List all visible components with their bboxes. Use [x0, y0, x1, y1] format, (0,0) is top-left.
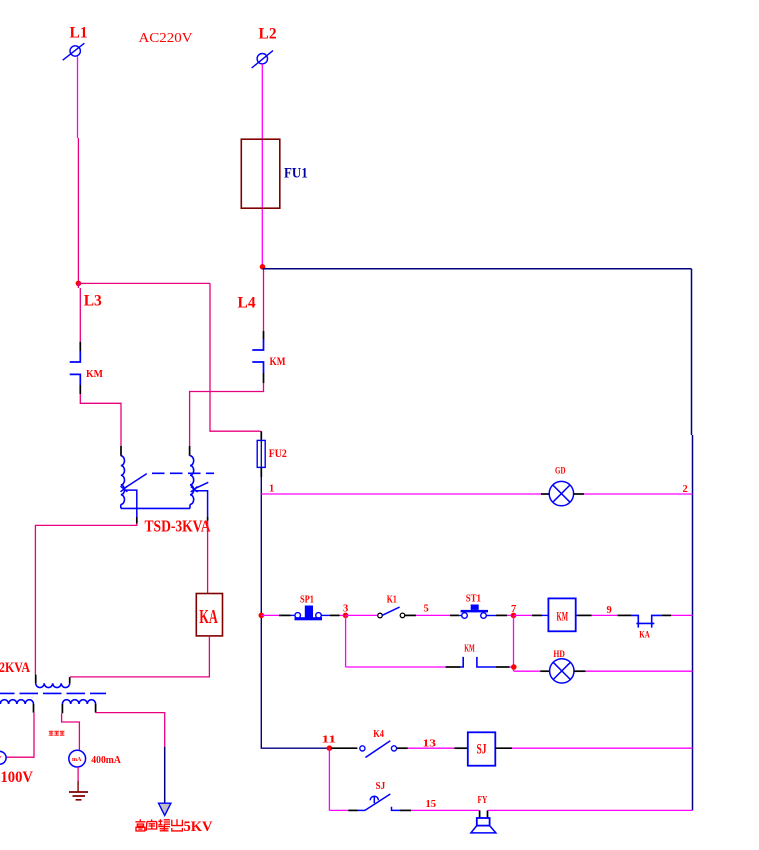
wire K1 to ST1 [416, 614, 450, 616]
variac wiper left [121, 474, 147, 517]
wire rung3 right [586, 670, 693, 672]
svg-text:TSD-3KVA: TSD-3KVA [145, 517, 212, 536]
wire HV output [96, 713, 165, 747]
pin KA contact left [618, 614, 632, 616]
wire L1 vertical upper [77, 57, 79, 139]
svg-text:KM: KM [557, 608, 569, 623]
svg-text:3: 3 [343, 603, 348, 614]
svg-text:KM: KM [86, 368, 104, 380]
pin GD left [541, 493, 549, 495]
wire mA meter to ground [77, 767, 79, 781]
wire left control bus [260, 477, 262, 748]
pin SJ coil left [454, 747, 468, 749]
svg-text:KM: KM [464, 644, 475, 655]
svg-text:100V: 100V [1, 769, 34, 786]
wire FY to bus [488, 809, 693, 811]
svg-text:2: 2 [683, 484, 688, 495]
svg-text:SJ: SJ [477, 742, 487, 758]
wire node7 down [513, 615, 515, 671]
svg-text:11: 11 [322, 735, 337, 746]
pin K4 left [331, 747, 357, 749]
right control bus [692, 269, 693, 811]
svg-text:AC220V: AC220V [139, 31, 193, 46]
svg-text:FY: FY [478, 795, 488, 806]
wire K4 to SJ coil [408, 747, 454, 749]
pin variac right top [189, 446, 191, 456]
wire rung3 left [346, 666, 446, 668]
wire SJ coil to bus [512, 747, 693, 749]
transformer T2 secondary HV winding [62, 700, 95, 704]
svg-text:KA: KA [199, 606, 218, 628]
svg-text:FU2: FU2 [269, 446, 287, 460]
node 7 [511, 613, 517, 619]
terminal L1 [63, 43, 85, 60]
svg-text:L4: L4 [238, 295, 256, 312]
svg-text:HD: HD [553, 649, 565, 659]
svg-text:400mA: 400mA [91, 755, 121, 766]
svg-text:L3: L3 [84, 293, 102, 310]
svg-text:K4: K4 [373, 729, 384, 740]
pushbutton ST1 [459, 613, 496, 619]
wire KM-left bottom to variac left winding [80, 394, 121, 446]
pin SJ contact right [400, 809, 411, 811]
wire node11 down to rung5 [328, 748, 330, 810]
svg-text:KA: KA [639, 631, 650, 641]
wire node3 down to KM aux [345, 615, 347, 667]
pin T2 primary right [69, 677, 71, 683]
transformer TSD variac right winding [190, 456, 194, 509]
svg-text:5: 5 [424, 603, 429, 614]
svg-text:1: 1 [269, 483, 274, 494]
wire node3 to K1 [346, 614, 378, 616]
node L3 junction [76, 281, 82, 287]
wire KM coil to node9 [592, 614, 618, 616]
wire right tap down to KA coil [207, 521, 209, 594]
buzzer FY [471, 810, 496, 833]
transformer T2 primary winding [36, 683, 70, 687]
pin KA contact right [662, 614, 671, 616]
pin SP1 right [330, 614, 340, 616]
pin variac right tap [207, 517, 209, 521]
pin LV winding right [33, 704, 35, 713]
wire SJ contact to FY [411, 809, 479, 811]
pin GD right [574, 493, 584, 495]
pin HD right [574, 670, 586, 672]
wire HV tail to mA meter [62, 713, 80, 750]
node rung3 junction [511, 664, 517, 670]
voltmeter V [0, 751, 6, 764]
pin variac left top [120, 446, 122, 456]
pushbutton SP1 [291, 613, 331, 619]
wire node7 to KM coil [514, 614, 532, 616]
wire KA bottom to HV primary right [70, 636, 209, 677]
pin HV winding right [95, 704, 97, 713]
node 3 [343, 613, 349, 619]
switch K1 [378, 607, 416, 618]
pin SP1 left [279, 614, 291, 616]
pin ST1 left [450, 614, 459, 616]
relay coil KA box [196, 594, 222, 636]
pin KM aux right [496, 666, 510, 668]
node rung2 tap [259, 613, 265, 619]
pin ST1 right [496, 614, 507, 616]
wire variac bottom rail [121, 507, 190, 509]
top control bus [263, 268, 692, 270]
svg-text:KM: KM [270, 356, 286, 368]
fuse FU1 [241, 139, 279, 208]
node L2-bus junction [260, 264, 266, 270]
label HV output (CJK strokes) [135, 819, 182, 831]
wire rung2 to SP1 [261, 614, 279, 616]
pin T2 primary left [35, 675, 37, 684]
svg-text:GD: GD [555, 466, 566, 476]
svg-text:13: 13 [423, 739, 437, 750]
svg-text:SP1: SP1 [300, 594, 314, 605]
pin KM coil left [532, 614, 542, 616]
node 11 [327, 745, 333, 751]
transformer T2 secondary LV winding [0, 700, 34, 704]
wire KA to bus [671, 614, 693, 616]
variac core dashed [152, 472, 214, 474]
transformer TSD variac left winding [121, 456, 125, 509]
wire L2 vertical through FU1 [261, 64, 263, 267]
svg-text:SJ: SJ [376, 781, 386, 792]
time relay coil SJ box [468, 732, 496, 765]
switch K4 [360, 741, 397, 758]
wire rung5 left [329, 809, 348, 811]
terminal L2 [252, 51, 273, 68]
svg-text:9: 9 [607, 605, 612, 616]
svg-text:mA: mA [72, 756, 82, 763]
pin KM coil right [576, 614, 578, 616]
contact KM aux [460, 657, 496, 667]
pin KM aux left [446, 666, 461, 668]
wire rung3 to HD [514, 670, 540, 672]
svg-text:5KV: 5KV [184, 819, 214, 835]
wire left tap to HV transformer primary [35, 524, 136, 675]
relay contact KA [632, 615, 662, 627]
fuse FU2 [257, 431, 265, 477]
svg-text:L2: L2 [259, 26, 277, 43]
wire KM aux to node [510, 666, 514, 668]
HV output arrow [159, 803, 171, 815]
wire L1 vertical lower [77, 138, 79, 283]
wire L3 down to KM contact [78, 283, 80, 341]
lamp HD [550, 659, 574, 683]
svg-text:15: 15 [426, 799, 437, 810]
wire KM-right bottom rail to variac right winding [190, 383, 264, 446]
wire rung1 right [584, 493, 693, 495]
ammeter mA [69, 750, 86, 767]
lamp GD [549, 481, 573, 505]
pin variac left tap [136, 517, 138, 524]
transformer T2 core dashed [0, 692, 106, 694]
contactor coil KM box [548, 598, 575, 631]
contactor KM main contact right [252, 331, 263, 383]
svg-text:ST1: ST1 [466, 594, 481, 605]
pin HV winding left [61, 704, 63, 713]
pin K4 right [397, 747, 408, 749]
wire rung4 from bus [261, 747, 329, 750]
svg-text:K1: K1 [387, 595, 397, 606]
wire LV to voltmeter [7, 713, 35, 758]
svg-text:FU1: FU1 [284, 165, 308, 181]
wire L3 horizontal to control feeder [78, 282, 210, 284]
wire control feeder from L3 to FU2 [210, 283, 261, 431]
svg-text:7: 7 [511, 604, 516, 615]
wire SP1 to node3 [340, 614, 346, 616]
ground [69, 792, 88, 800]
svg-text:L1: L1 [70, 25, 88, 42]
contact SJ timed [358, 794, 401, 810]
contactor KM main contact left [70, 342, 81, 394]
label HV tail (small CJK strokes) [49, 731, 65, 735]
wire L4 down to KM contact [263, 269, 265, 331]
variac wiper right [191, 482, 209, 517]
pin SJ coil right [495, 747, 512, 749]
pin HD left [540, 670, 550, 672]
pin SJ contact left [348, 809, 357, 811]
wire ST1 to node7 [507, 614, 514, 616]
wire rung1 left [261, 493, 541, 495]
svg-text:2KVA: 2KVA [0, 660, 30, 676]
wire HV output arrow lead [164, 747, 166, 803]
